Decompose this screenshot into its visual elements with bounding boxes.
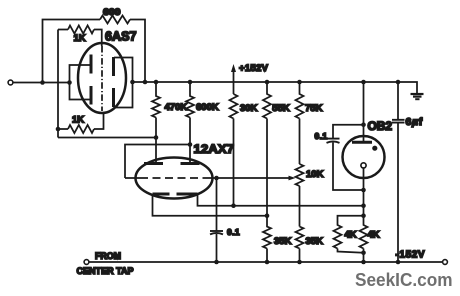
node: OB2 top junction bbox=[361, 122, 366, 127]
resistor 30K bbox=[230, 94, 238, 118]
svg-text:35K: 35K bbox=[274, 236, 292, 247]
capacitor 0.1 (OB2) top lead bbox=[333, 125, 364, 139]
wire: bottom grid lead bbox=[58, 112, 104, 129]
svg-text:6AS7: 6AS7 bbox=[105, 30, 137, 44]
svg-text:600: 600 bbox=[103, 7, 121, 17]
pot wiper arrow bbox=[217, 177, 290, 179]
OB2 starter electrode dot bbox=[372, 146, 377, 151]
svg-text:1K: 1K bbox=[74, 33, 86, 44]
svg-text:10K: 10K bbox=[306, 169, 324, 180]
node: right grid bbox=[214, 176, 219, 181]
resistor 35K (left) bbox=[263, 216, 271, 262]
svg-text:OB2: OB2 bbox=[368, 121, 393, 133]
svg-text:0.1: 0.1 bbox=[314, 131, 327, 141]
node: plates to bus bbox=[130, 80, 135, 85]
wire: 30K lower lead bbox=[233, 119, 235, 206]
wire: bias line to 12AX7 left plate bbox=[58, 137, 156, 139]
capacitor 6uf plates bbox=[392, 120, 405, 123]
tube 6AS7 envelope bbox=[78, 43, 126, 113]
svg-text:35K: 35K bbox=[306, 236, 324, 247]
svg-text:600K: 600K bbox=[196, 102, 219, 113]
wire: top grid lead bbox=[94, 30, 102, 47]
terminal: center tap bbox=[84, 260, 89, 265]
resistor 75K bbox=[296, 82, 304, 164]
potentiometer 10K bbox=[296, 164, 304, 227]
node: 4K junction top bbox=[361, 213, 366, 218]
svg-text:75K: 75K bbox=[305, 103, 323, 114]
terminal: -152V bbox=[443, 260, 448, 265]
cathode bars 12AX7 bbox=[153, 193, 198, 196]
grid (dash-dot) of 6AS7 bbox=[101, 46, 103, 111]
svg-text:0.1: 0.1 bbox=[227, 227, 240, 237]
capacitor 6uf leads bbox=[397, 82, 399, 262]
svg-text:+152V: +152V bbox=[239, 63, 269, 74]
svg-text:55K: 55K bbox=[272, 103, 290, 114]
svg-text:FROM: FROM bbox=[95, 251, 121, 262]
capacitor 0.1 (OB2) bottom lead bbox=[333, 143, 364, 191]
node: 600K at bus bbox=[188, 80, 193, 85]
negative rail wire bbox=[89, 261, 443, 263]
resistor 35K (right) bbox=[296, 227, 304, 263]
node: 6uf at rail bbox=[396, 260, 401, 265]
wire: outer feedback loop bbox=[43, 20, 101, 83]
svg-text:SeekIC.com: SeekIC.com bbox=[355, 269, 453, 290]
node: outer loop junction bbox=[40, 80, 45, 85]
wire: OB2 cathode lead bbox=[363, 168, 365, 216]
B+ bus wire bbox=[133, 82, 418, 94]
plate bars 12AX7 bbox=[144, 162, 200, 165]
node: 30K to line A bbox=[231, 203, 236, 208]
+152V arrow bbox=[233, 72, 235, 94]
node: 75K at bus bbox=[297, 80, 302, 85]
wire: 600 to plate bus bbox=[130, 20, 145, 83]
node: cap at rail bbox=[214, 260, 219, 265]
resistor 600K bbox=[186, 82, 194, 145]
node: 55K at bus bbox=[265, 80, 270, 85]
svg-text:1K: 1K bbox=[72, 115, 84, 126]
svg-text:30K: 30K bbox=[240, 103, 258, 114]
node: 55K to line B bbox=[265, 213, 270, 218]
wire: left cathode line B bbox=[153, 194, 268, 216]
resistor 4K (left) bbox=[334, 216, 364, 253]
node: 600 at bus bbox=[143, 80, 148, 85]
tube 12AX7 envelope bbox=[136, 158, 213, 199]
node: 35K right at rail bbox=[297, 260, 302, 265]
node: 4K at rail bbox=[361, 260, 366, 265]
OB2 cathode circle bbox=[361, 163, 366, 168]
capacitor 0.1 (grid decoupling) top lead bbox=[216, 178, 218, 231]
resistor 600 bbox=[100, 16, 130, 24]
capacitor 0.1 (OB2) plates bbox=[327, 138, 340, 140]
plate bars 6AS7 bbox=[112, 57, 115, 107]
ground symbol bbox=[411, 93, 424, 95]
cathode bars 6AS7 bbox=[90, 55, 93, 105]
node: right plate junction bbox=[188, 142, 193, 147]
svg-text:-152V: -152V bbox=[396, 250, 426, 261]
wire: cathode bracket bbox=[70, 65, 90, 100]
svg-text:4K: 4K bbox=[345, 230, 357, 241]
tube OB2 envelope bbox=[343, 136, 385, 178]
node: 470K at bus bbox=[154, 80, 159, 85]
wire: right plate lead bbox=[189, 145, 191, 164]
svg-text:4K: 4K bbox=[368, 230, 380, 241]
svg-text:12AX7: 12AX7 bbox=[194, 142, 235, 156]
node: 6uf at bus bbox=[396, 80, 401, 85]
node: OB2 cathode / 0.1 return bbox=[361, 188, 366, 193]
OB2 anode bar bbox=[352, 141, 372, 144]
wire: right cathode line A bbox=[198, 194, 365, 206]
svg-text:6µf: 6µf bbox=[406, 116, 424, 128]
resistor 1K (top) bbox=[68, 26, 94, 34]
node: left plate junction bbox=[154, 135, 159, 140]
wire: left plate lead bbox=[155, 138, 157, 164]
svg-text:CENTER TAP: CENTER TAP bbox=[77, 266, 135, 277]
svg-text:470K: 470K bbox=[165, 102, 188, 113]
wire: inner bias loop vertical bbox=[58, 30, 68, 138]
resistor 1K (bottom) bbox=[68, 125, 94, 133]
wire: left grid to right plate (feedback) bbox=[125, 145, 190, 179]
resistor 55K bbox=[263, 82, 271, 216]
input terminal (left) bbox=[8, 80, 13, 85]
grid (dashed) of 12AX7 bbox=[140, 177, 207, 179]
capacitor 0.1 (grid) plates bbox=[210, 230, 223, 232]
node: 35K left at rail bbox=[265, 260, 270, 265]
wire: OB2 anode lead bbox=[363, 82, 365, 142]
node: bias loop bottom bbox=[56, 127, 61, 132]
node: line A junction bbox=[361, 203, 366, 208]
node: OB2 at bus bbox=[361, 80, 366, 85]
wire: input line bbox=[13, 82, 70, 84]
wire: right grid out bbox=[207, 177, 217, 179]
resistor 470K bbox=[152, 82, 160, 138]
capacitor 0.1 (grid) bottom lead bbox=[216, 234, 218, 262]
resistor 4K (right) bbox=[360, 216, 368, 262]
node: 4K bottoms joined bbox=[361, 251, 366, 256]
wire: plate bracket bbox=[114, 58, 133, 108]
node: cathodes to input bbox=[67, 80, 72, 85]
